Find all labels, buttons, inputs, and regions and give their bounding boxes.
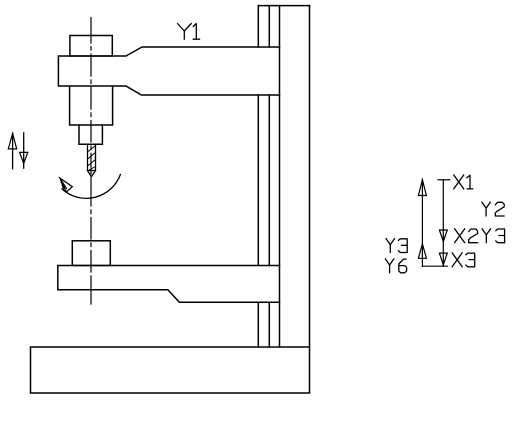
feed up arrowhead <box>8 134 16 149</box>
label Y3 right <box>482 229 505 243</box>
legend bottom line <box>422 265 447 267</box>
drill bit body <box>88 144 96 170</box>
workpiece block <box>72 241 110 266</box>
quill narrow block <box>70 86 113 125</box>
legend up arrowhead 1 <box>418 180 426 196</box>
feed up arrow line <box>12 133 14 169</box>
legend right line X1-X3 <box>442 180 444 266</box>
legend down arrowhead X2 <box>439 230 447 242</box>
label Y1 <box>178 24 200 40</box>
legend up arrowhead 2 <box>418 244 426 258</box>
label X2 <box>455 229 478 243</box>
label Y2 <box>482 202 504 216</box>
feed down arrow line <box>23 133 25 168</box>
head wide block and arm outline <box>58 47 279 95</box>
column left edge <box>279 6 281 347</box>
column top edge <box>258 5 309 7</box>
legend down arrowhead X3 <box>439 253 447 265</box>
drill bit hatching <box>88 146 96 171</box>
column right edge <box>309 6 311 393</box>
rotation arc <box>62 175 120 199</box>
label Y3 left <box>386 239 407 253</box>
label X1 <box>454 175 473 189</box>
rotation arrowhead <box>60 178 73 192</box>
legend top tick <box>438 179 450 181</box>
table outline <box>58 266 280 303</box>
drill tip <box>88 171 96 177</box>
chuck block <box>79 125 102 144</box>
legend left line <box>421 179 423 266</box>
label X3 <box>452 253 475 267</box>
spindle centerline <box>90 18 92 305</box>
spindle top block <box>70 36 112 57</box>
column rail line 2 <box>268 6 270 347</box>
column rail line 1 <box>257 6 259 347</box>
base <box>31 347 310 393</box>
label Y6 <box>385 259 406 273</box>
feed down arrowhead <box>20 152 28 163</box>
